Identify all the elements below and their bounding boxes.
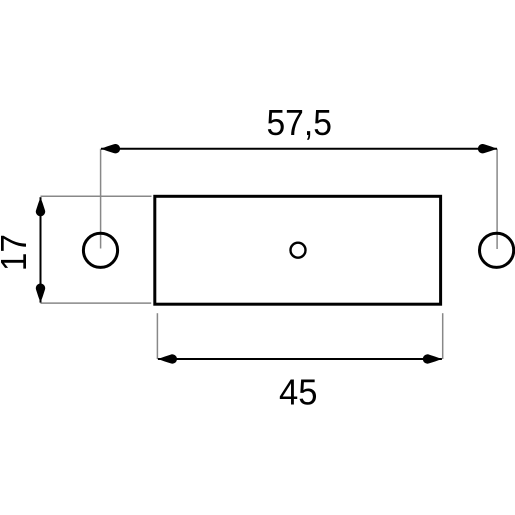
- svg-text:17: 17: [0, 234, 34, 271]
- svg-text:57,5: 57,5: [266, 102, 332, 143]
- svg-text:45: 45: [279, 372, 318, 413]
